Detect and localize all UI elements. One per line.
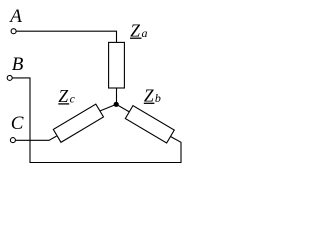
impedance Za: [109, 42, 125, 88]
label Zc: [58, 86, 75, 106]
svg-text:Z: Z: [58, 86, 68, 106]
terminal B: [7, 75, 12, 80]
wire Zb to bottom bus to B: [12, 78, 181, 163]
svg-text:B: B: [12, 54, 24, 75]
wire Za to node: [116, 88, 118, 104]
label Za: [130, 21, 148, 41]
impedance Zb: [125, 106, 174, 143]
wire node to Zc: [100, 105, 116, 111]
svg-text:A: A: [8, 6, 22, 27]
svg-text:Z: Z: [130, 21, 140, 41]
wire node to Zb: [117, 105, 130, 112]
svg-text:Z: Z: [144, 86, 154, 106]
wire Zc to C: [15, 136, 56, 140]
terminal A: [11, 29, 16, 34]
svg-text:a: a: [142, 26, 148, 40]
svg-text:b: b: [155, 91, 161, 105]
terminal C: [10, 138, 15, 143]
impedance Zc: [53, 104, 103, 142]
node N star point: [114, 102, 119, 107]
label Zb: [144, 86, 161, 106]
svg-text:c: c: [70, 91, 76, 105]
svg-text:C: C: [11, 113, 24, 134]
wire A to Za: [16, 31, 116, 42]
